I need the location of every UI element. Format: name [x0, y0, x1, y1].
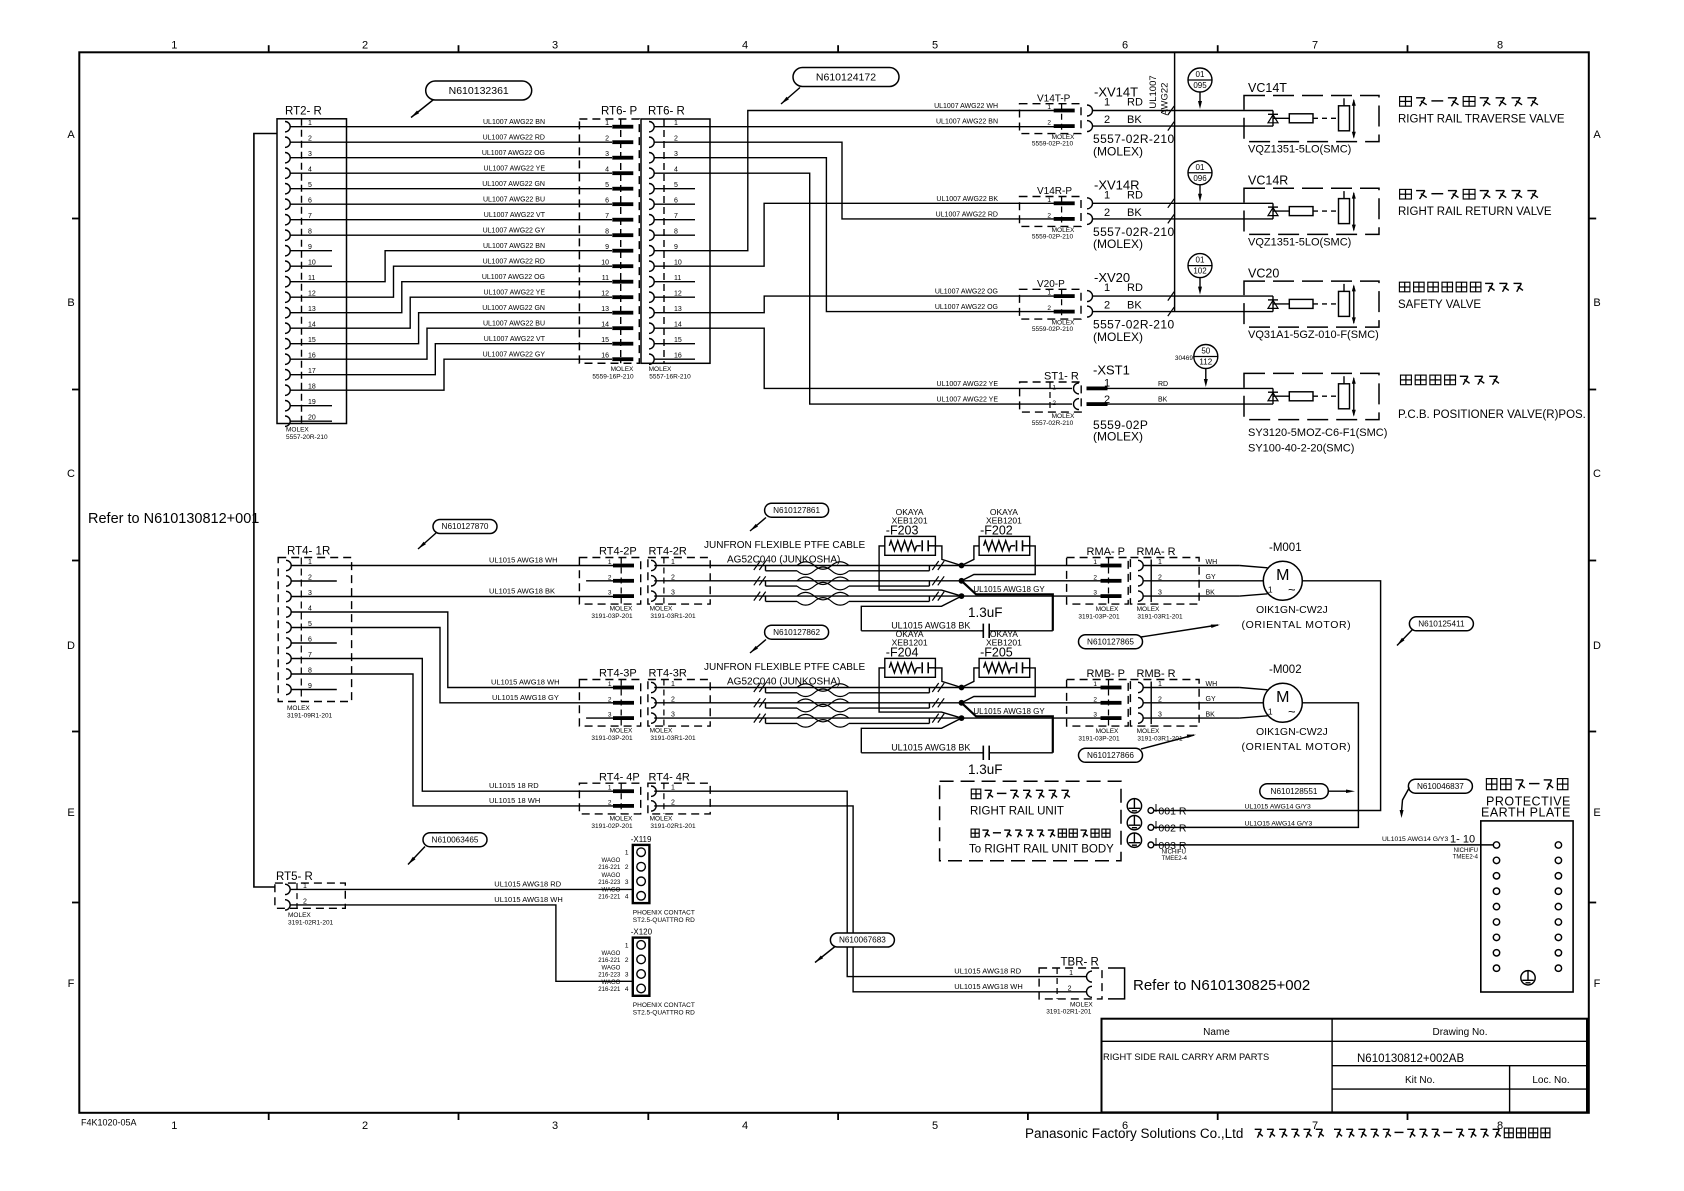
svg-text:UL1007 AWG22 RD: UL1007 AWG22 RD	[936, 211, 998, 218]
svg-text:2: 2	[362, 40, 368, 52]
svg-text:1.3uF: 1.3uF	[968, 605, 1003, 620]
svg-text:TMEE2-4: TMEE2-4	[1453, 855, 1479, 861]
svg-text:UL1007 AWG22 BN: UL1007 AWG22 BN	[483, 119, 545, 126]
svg-text:9: 9	[605, 244, 609, 251]
svg-text:~: ~	[1288, 704, 1296, 719]
svg-text:Panasonic Factory Solutions Co: Panasonic Factory Solutions Co.,Ltd	[1025, 1126, 1243, 1141]
svg-text:N610063465: N610063465	[432, 835, 479, 844]
svg-text:(ORIENTAL MOTOR): (ORIENTAL MOTOR)	[1242, 741, 1352, 753]
svg-text:-XV20: -XV20	[1094, 270, 1130, 285]
svg-text:TMEE2-4: TMEE2-4	[1162, 856, 1188, 862]
svg-text:Refer to N610130812+001: Refer to N610130812+001	[88, 511, 259, 527]
svg-text:UL1007 AWG22 GY: UL1007 AWG22 GY	[483, 352, 546, 359]
svg-text:5557-02R-210: 5557-02R-210	[1032, 420, 1074, 427]
svg-text:2: 2	[608, 696, 612, 703]
svg-text:VQZ1351-5LO(SMC): VQZ1351-5LO(SMC)	[1248, 236, 1351, 248]
svg-text:RT4- 1R: RT4- 1R	[287, 546, 330, 558]
svg-text:SAFETY VALVE: SAFETY VALVE	[1398, 299, 1481, 311]
svg-text:2: 2	[1093, 696, 1097, 703]
svg-text:1: 1	[1047, 104, 1051, 111]
svg-text:16: 16	[601, 353, 609, 360]
svg-text:MOLEX: MOLEX	[650, 815, 673, 822]
svg-text:RT4- 4R: RT4- 4R	[649, 771, 690, 783]
svg-text:2: 2	[625, 957, 629, 964]
svg-text:-F203: -F203	[886, 524, 919, 538]
svg-text:UL1007 AWG22 GN: UL1007 AWG22 GN	[482, 181, 545, 188]
svg-text:UL1007 AWG22 OG: UL1007 AWG22 OG	[935, 289, 998, 296]
svg-text:1: 1	[1104, 97, 1110, 109]
svg-text:UL1015 AWG14 G/Y3: UL1015 AWG14 G/Y3	[1382, 836, 1448, 843]
svg-text:ST2.5-QUATTRO RD: ST2.5-QUATTRO RD	[633, 917, 695, 924]
svg-text:Loc. No.: Loc. No.	[1532, 1075, 1569, 1086]
svg-text:RIGHT RAIL TRAVERSE VALVE: RIGHT RAIL TRAVERSE VALVE	[1398, 113, 1565, 125]
svg-text:2: 2	[1093, 574, 1097, 581]
svg-text:Refer to N610130825+002: Refer to N610130825+002	[1133, 977, 1310, 994]
svg-text:8: 8	[1497, 1120, 1503, 1132]
svg-text:5: 5	[932, 40, 938, 52]
svg-text:UL1O15 AWG14 G/Y3: UL1O15 AWG14 G/Y3	[1245, 820, 1313, 827]
svg-text:RMA- R: RMA- R	[1137, 546, 1176, 558]
svg-text:30469: 30469	[1175, 355, 1193, 362]
svg-text:A: A	[67, 129, 75, 141]
svg-text:RT4- 4P: RT4- 4P	[599, 771, 640, 783]
svg-text:-M002: -M002	[1269, 664, 1302, 676]
svg-text:BK: BK	[1206, 589, 1216, 596]
svg-text:UL1007 AWG22 OG: UL1007 AWG22 OG	[482, 274, 545, 281]
svg-text:4: 4	[742, 40, 748, 52]
svg-text:3191-09R1-201: 3191-09R1-201	[287, 713, 333, 720]
svg-text:3191-03R1-201: 3191-03R1-201	[650, 613, 696, 620]
svg-text:RIGHT RAIL UNIT: RIGHT RAIL UNIT	[970, 806, 1064, 818]
svg-text:SY3120-5MOZ-C6-F1(SMC): SY3120-5MOZ-C6-F1(SMC)	[1248, 427, 1387, 439]
svg-text:UL1015 AWG18 RD: UL1015 AWG18 RD	[494, 879, 561, 888]
svg-text:12: 12	[601, 291, 609, 298]
svg-text:-F204: -F204	[886, 646, 919, 660]
svg-text:3: 3	[625, 879, 629, 886]
svg-text:A: A	[1593, 129, 1601, 141]
svg-text:216-223: 216-223	[598, 973, 621, 979]
svg-text:2: 2	[1104, 207, 1110, 219]
svg-text:-X120: -X120	[631, 928, 653, 937]
svg-text:2: 2	[605, 136, 609, 143]
svg-text:7: 7	[1312, 1120, 1318, 1132]
svg-text:216-221: 216-221	[598, 865, 621, 871]
svg-text:1: 1	[1268, 584, 1273, 594]
svg-text:UL1015 AWG18 WH: UL1015 AWG18 WH	[954, 982, 1023, 991]
svg-text:3191-02R1-201: 3191-02R1-201	[288, 920, 334, 927]
svg-text:2: 2	[1068, 985, 1072, 992]
svg-text:JUNFRON FLEXIBLE PTFE CABLE: JUNFRON FLEXIBLE PTFE CABLE	[704, 662, 865, 673]
svg-text:N610128551: N610128551	[1271, 787, 1318, 796]
svg-text:To RIGHT RAIL UNIT BODY: To RIGHT RAIL UNIT BODY	[969, 844, 1114, 856]
svg-text:WAGO: WAGO	[602, 858, 621, 864]
svg-text:7: 7	[1312, 40, 1318, 52]
svg-text:UL1007 AWG22 YE: UL1007 AWG22 YE	[937, 397, 999, 404]
svg-text:RMB- R: RMB- R	[1137, 668, 1176, 680]
svg-text:RD: RD	[1158, 381, 1168, 388]
svg-text:PHOENIX CONTACT: PHOENIX CONTACT	[633, 909, 695, 916]
svg-text:UL1007 AWG22 WH: UL1007 AWG22 WH	[934, 103, 998, 110]
svg-text:3: 3	[552, 40, 558, 52]
svg-text:RT5- R: RT5- R	[276, 871, 313, 883]
svg-text:14: 14	[601, 322, 609, 329]
svg-text:C: C	[1593, 468, 1601, 480]
svg-text:6: 6	[605, 198, 609, 205]
svg-text:1: 1	[1069, 970, 1073, 977]
svg-text:2: 2	[1104, 300, 1110, 312]
svg-text:MOLEX: MOLEX	[286, 427, 309, 434]
svg-text:UL1015 AWG18 BK: UL1015 AWG18 BK	[891, 742, 970, 752]
svg-text:1: 1	[1093, 559, 1097, 566]
svg-text:01: 01	[1196, 256, 1205, 265]
svg-text:3191-03P-201: 3191-03P-201	[591, 613, 633, 620]
svg-text:UL1015 18 RD: UL1015 18 RD	[489, 781, 539, 790]
svg-text:RD: RD	[1127, 282, 1143, 294]
svg-text:2: 2	[1047, 120, 1051, 127]
svg-text:E: E	[1593, 807, 1600, 819]
svg-text:-X119: -X119	[631, 835, 652, 844]
svg-text:UL1015 AWG18 GY: UL1015 AWG18 GY	[973, 585, 1045, 594]
svg-text:UL1007 AWG22 BN: UL1007 AWG22 BN	[483, 243, 545, 250]
svg-text:UL1007 AWG22 RD: UL1007 AWG22 RD	[483, 135, 545, 142]
svg-text:11: 11	[602, 275, 609, 282]
svg-text:WAGO: WAGO	[602, 980, 621, 986]
svg-text:7: 7	[605, 213, 609, 220]
svg-text:WAGO: WAGO	[602, 873, 621, 879]
svg-text:1: 1	[608, 559, 612, 566]
svg-text:BK: BK	[1127, 114, 1142, 126]
svg-text:3: 3	[625, 972, 629, 979]
svg-text:1: 1	[1047, 290, 1051, 297]
svg-text:5557-16R-210: 5557-16R-210	[649, 374, 691, 381]
svg-text:JUNFRON FLEXIBLE PTFE CABLE: JUNFRON FLEXIBLE PTFE CABLE	[704, 540, 865, 551]
svg-text:BK: BK	[1158, 397, 1168, 404]
svg-text:V20-P: V20-P	[1037, 279, 1065, 290]
svg-text:5559-16P-210: 5559-16P-210	[592, 374, 634, 381]
svg-text:-M001: -M001	[1269, 542, 1302, 554]
svg-text:3: 3	[552, 1120, 558, 1132]
svg-text:1: 1	[608, 785, 612, 792]
svg-text:RT4-2P: RT4-2P	[599, 546, 637, 558]
svg-text:RIGHT RAIL RETURN VALVE: RIGHT RAIL RETURN VALVE	[1398, 206, 1552, 218]
svg-text:2: 2	[625, 864, 629, 871]
svg-text:N610067683: N610067683	[839, 936, 886, 945]
svg-text:D: D	[67, 640, 75, 652]
svg-text:1: 1	[1047, 197, 1051, 204]
svg-text:1: 1	[608, 681, 612, 688]
svg-text:5: 5	[605, 182, 609, 189]
svg-text:1: 1	[1093, 681, 1097, 688]
svg-text:3191-02R1-201: 3191-02R1-201	[1046, 1009, 1092, 1016]
svg-text:1- 10: 1- 10	[1450, 834, 1475, 846]
svg-text:MOLEX: MOLEX	[611, 366, 634, 373]
svg-text:3: 3	[1093, 590, 1097, 597]
svg-text:2: 2	[1104, 114, 1110, 126]
svg-text:3191-02R1-201: 3191-02R1-201	[650, 823, 696, 830]
svg-text:216-221: 216-221	[598, 958, 621, 964]
svg-text:1: 1	[171, 1120, 177, 1132]
svg-text:V14R-P: V14R-P	[1037, 186, 1072, 197]
svg-text:MOLEX: MOLEX	[610, 815, 633, 822]
svg-text:PHOENIX CONTACT: PHOENIX CONTACT	[633, 1002, 695, 1009]
svg-text:NICHIFU: NICHIFU	[1162, 850, 1186, 856]
svg-text:WAGO: WAGO	[602, 966, 621, 972]
svg-text:001 R: 001 R	[1158, 806, 1186, 818]
svg-text:002 R: 002 R	[1158, 822, 1186, 834]
svg-text:UL1007: UL1007	[1148, 75, 1159, 108]
svg-text:4: 4	[625, 986, 629, 993]
svg-text:UL1007 AWG22 GY: UL1007 AWG22 GY	[483, 228, 546, 235]
svg-text:Name: Name	[1203, 1027, 1230, 1038]
svg-text:SY100-40-2-20(SMC): SY100-40-2-20(SMC)	[1248, 443, 1354, 455]
svg-text:E: E	[67, 807, 74, 819]
svg-text:5557-20R-210: 5557-20R-210	[286, 434, 328, 441]
svg-text:1: 1	[1104, 189, 1110, 201]
svg-text:2: 2	[1047, 212, 1051, 219]
svg-text:216-221: 216-221	[598, 987, 621, 993]
svg-text:WH: WH	[1206, 559, 1218, 566]
svg-text:3191-03P-201: 3191-03P-201	[1078, 614, 1120, 621]
svg-text:2: 2	[1047, 305, 1051, 312]
svg-text:V14T-P: V14T-P	[1037, 93, 1071, 104]
svg-text:N610124172: N610124172	[816, 72, 876, 84]
svg-text:AG52C040 (JUNKOSHA): AG52C040 (JUNKOSHA)	[727, 555, 840, 566]
svg-text:GY: GY	[1206, 696, 1216, 703]
svg-text:3: 3	[1093, 712, 1097, 719]
svg-text:RMB- P: RMB- P	[1087, 668, 1126, 680]
svg-text:BK: BK	[1206, 711, 1216, 718]
svg-text:RT6- R: RT6- R	[648, 106, 685, 118]
svg-text:15: 15	[601, 337, 609, 344]
svg-text:1: 1	[605, 120, 609, 127]
svg-text:~: ~	[1288, 582, 1296, 597]
svg-text:216-223: 216-223	[598, 880, 621, 886]
svg-text:1: 1	[1104, 377, 1110, 389]
svg-text:UL1007 AWG22 RD: UL1007 AWG22 RD	[483, 259, 545, 266]
svg-text:1: 1	[171, 40, 177, 52]
svg-text:RT4-2R: RT4-2R	[649, 546, 687, 558]
svg-text:(MOLEX): (MOLEX)	[1093, 330, 1143, 344]
svg-text:3191-03R1-201: 3191-03R1-201	[1137, 614, 1183, 621]
svg-text:RIGHT SIDE RAIL CARRY ARM PART: RIGHT SIDE RAIL CARRY ARM PARTS	[1103, 1052, 1269, 1062]
svg-text:3: 3	[608, 590, 612, 597]
svg-text:MOLEX: MOLEX	[650, 728, 673, 735]
svg-text:F: F	[68, 978, 75, 990]
svg-text:N610127870: N610127870	[442, 522, 489, 531]
svg-text:102: 102	[1193, 267, 1207, 276]
svg-text:3191-02P-201: 3191-02P-201	[591, 823, 633, 830]
svg-text:WAGO: WAGO	[602, 887, 621, 893]
svg-text:8: 8	[1497, 40, 1503, 52]
svg-text:2: 2	[608, 799, 612, 806]
svg-text:N610127861: N610127861	[773, 506, 820, 515]
svg-text:1: 1	[625, 942, 629, 949]
svg-text:RT4-3P: RT4-3P	[599, 668, 637, 680]
svg-text:B: B	[67, 297, 74, 309]
svg-text:C: C	[67, 468, 75, 480]
svg-text:6: 6	[1122, 40, 1128, 52]
svg-text:UL1007 AWG22 YE: UL1007 AWG22 YE	[937, 381, 999, 388]
svg-text:UL1007 AWG22 BN: UL1007 AWG22 BN	[936, 119, 998, 126]
svg-text:EARTH PLATE: EARTH PLATE	[1481, 806, 1571, 820]
svg-text:OIK1GN-CW2J: OIK1GN-CW2J	[1256, 726, 1328, 738]
svg-text:-F202: -F202	[980, 524, 1013, 538]
svg-text:VQ31A1-5GZ-010-F(SMC): VQ31A1-5GZ-010-F(SMC)	[1248, 329, 1379, 341]
svg-text:3: 3	[605, 151, 609, 158]
svg-text:VC14R: VC14R	[1248, 174, 1288, 188]
svg-text:UL1007 AWG22 BU: UL1007 AWG22 BU	[483, 321, 545, 328]
svg-text:MOLEX: MOLEX	[288, 912, 311, 919]
svg-text:1: 1	[625, 850, 629, 857]
svg-text:VQZ1351-5LO(SMC): VQZ1351-5LO(SMC)	[1248, 144, 1351, 156]
svg-text:UL1007 AWG22 BU: UL1007 AWG22 BU	[483, 197, 545, 204]
svg-text:01: 01	[1196, 70, 1205, 79]
svg-text:VC20: VC20	[1248, 266, 1279, 280]
svg-text:1: 1	[1104, 282, 1110, 294]
svg-text:2: 2	[362, 1120, 368, 1132]
svg-text:(MOLEX): (MOLEX)	[1093, 430, 1143, 444]
svg-text:MOLEX: MOLEX	[610, 606, 633, 613]
svg-text:13: 13	[601, 306, 609, 313]
svg-text:MOLEX: MOLEX	[1070, 1002, 1093, 1009]
svg-text:UL1007 AWG22 VT: UL1007 AWG22 VT	[484, 212, 546, 219]
svg-text:RT4-3R: RT4-3R	[649, 668, 687, 680]
svg-text:8: 8	[605, 229, 609, 236]
svg-text:UL1007 AWG22 YE: UL1007 AWG22 YE	[484, 290, 546, 297]
svg-text:5559-02P-210: 5559-02P-210	[1032, 326, 1074, 333]
svg-text:UL1007 AWG22 YE: UL1007 AWG22 YE	[484, 166, 546, 173]
svg-text:RT2- R: RT2- R	[285, 106, 322, 118]
svg-text:N610132361: N610132361	[449, 85, 509, 97]
svg-text:RD: RD	[1127, 97, 1143, 109]
svg-text:MOLEX: MOLEX	[1096, 728, 1119, 735]
svg-text:112: 112	[1199, 358, 1212, 367]
svg-text:F4K1020-05A: F4K1020-05A	[81, 1118, 137, 1128]
svg-text:GY: GY	[1206, 574, 1216, 581]
svg-text:MOLEX: MOLEX	[649, 366, 672, 373]
svg-text:(MOLEX): (MOLEX)	[1093, 237, 1143, 251]
svg-text:MOLEX: MOLEX	[1096, 606, 1119, 613]
svg-text:1.3uF: 1.3uF	[968, 762, 1003, 777]
svg-text:D: D	[1593, 640, 1601, 652]
svg-text:1: 1	[1268, 706, 1273, 716]
svg-text:5559-02P-210: 5559-02P-210	[1032, 141, 1074, 148]
svg-text:MOLEX: MOLEX	[1052, 413, 1075, 420]
svg-text:095: 095	[1193, 81, 1207, 90]
svg-text:(ORIENTAL MOTOR): (ORIENTAL MOTOR)	[1242, 619, 1352, 631]
svg-text:F: F	[1594, 978, 1601, 990]
svg-text:RMA- P: RMA- P	[1087, 546, 1126, 558]
svg-text:MOLEX: MOLEX	[610, 728, 633, 735]
svg-text:UL1007 AWG22 VT: UL1007 AWG22 VT	[484, 336, 546, 343]
svg-text:B: B	[1593, 297, 1600, 309]
svg-text:UL1015 AWG18 RD: UL1015 AWG18 RD	[954, 967, 1021, 976]
svg-text:OIK1GN-CW2J: OIK1GN-CW2J	[1256, 604, 1328, 616]
svg-text:3191-03P-201: 3191-03P-201	[1078, 736, 1120, 743]
svg-text:N610127866: N610127866	[1087, 751, 1134, 760]
svg-text:5559-02P-210: 5559-02P-210	[1032, 233, 1074, 240]
svg-text:-F205: -F205	[980, 646, 1013, 660]
svg-text:WAGO: WAGO	[602, 951, 621, 957]
svg-text:WH: WH	[1206, 681, 1218, 688]
svg-text:4: 4	[605, 167, 609, 174]
svg-text:P.C.B. POSITIONER VALVE(R)POS.: P.C.B. POSITIONER VALVE(R)POS.	[1398, 409, 1586, 421]
svg-text:UL1015 18 WH: UL1015 18 WH	[489, 796, 540, 805]
svg-text:BK: BK	[1127, 207, 1142, 219]
svg-text:4: 4	[742, 1120, 748, 1132]
svg-text:096: 096	[1193, 174, 1207, 183]
svg-text:TBR- R: TBR- R	[1061, 957, 1099, 969]
svg-text:N610127862: N610127862	[773, 628, 820, 637]
svg-text:50: 50	[1201, 347, 1210, 356]
svg-text:5: 5	[932, 1120, 938, 1132]
svg-text:MOLEX: MOLEX	[287, 705, 310, 712]
svg-text:N610130812+002AB: N610130812+002AB	[1357, 1053, 1464, 1065]
svg-text:1: 1	[1052, 384, 1056, 391]
svg-text:216-221: 216-221	[598, 894, 621, 900]
svg-text:AWG22: AWG22	[1160, 83, 1171, 116]
svg-text:ST1- R: ST1- R	[1044, 371, 1079, 383]
svg-text:UL1015 AWG18 WH: UL1015 AWG18 WH	[489, 556, 558, 565]
svg-text:UL1007 AWG22 BK: UL1007 AWG22 BK	[936, 196, 998, 203]
svg-text:VC14T: VC14T	[1248, 81, 1287, 95]
svg-text:N610127865: N610127865	[1087, 637, 1134, 646]
svg-text:4: 4	[625, 893, 629, 900]
svg-text:3191-03R1-201: 3191-03R1-201	[650, 735, 696, 742]
svg-text:UL1015 AWG18 BK: UL1015 AWG18 BK	[489, 587, 555, 596]
svg-text:NICHIFU: NICHIFU	[1454, 848, 1478, 854]
svg-text:AG52C040 (JUNKOSHA): AG52C040 (JUNKOSHA)	[727, 677, 840, 688]
svg-text:N610125411: N610125411	[1418, 620, 1465, 629]
svg-text:UL1015 AWG14 G/Y3: UL1015 AWG14 G/Y3	[1245, 804, 1311, 811]
svg-text:ST2.5-QUATTRO RD: ST2.5-QUATTRO RD	[633, 1010, 695, 1017]
svg-text:Kit No.: Kit No.	[1405, 1075, 1435, 1086]
svg-text:RT6- P: RT6- P	[601, 106, 638, 118]
svg-text:10: 10	[601, 260, 609, 267]
svg-text:MOLEX: MOLEX	[1137, 728, 1160, 735]
svg-text:UL1007 AWG22 OG: UL1007 AWG22 OG	[935, 304, 998, 311]
svg-text:UL1015 AWG18 WH: UL1015 AWG18 WH	[491, 678, 560, 687]
svg-text:MOLEX: MOLEX	[650, 606, 673, 613]
svg-text:UL1015 AWG18 WH: UL1015 AWG18 WH	[494, 895, 563, 904]
svg-text:(MOLEX): (MOLEX)	[1093, 144, 1143, 158]
svg-text:01: 01	[1196, 163, 1205, 172]
svg-text:UL1015 AWG18 GY: UL1015 AWG18 GY	[973, 707, 1045, 716]
svg-text:2: 2	[1052, 400, 1056, 407]
svg-text:N610046837: N610046837	[1417, 782, 1464, 791]
svg-text:UL1007 AWG22 OG: UL1007 AWG22 OG	[482, 150, 545, 157]
svg-text:-XST1: -XST1	[1093, 362, 1130, 377]
svg-text:BK: BK	[1127, 300, 1142, 312]
svg-text:RD: RD	[1127, 189, 1143, 201]
svg-text:3191-03P-201: 3191-03P-201	[591, 735, 633, 742]
svg-text:UL1015 AWG18 GY: UL1015 AWG18 GY	[492, 693, 559, 702]
svg-text:Drawing No.: Drawing No.	[1432, 1027, 1487, 1038]
svg-text:UL1007 AWG22 GN: UL1007 AWG22 GN	[482, 305, 545, 312]
svg-text:MOLEX: MOLEX	[1137, 606, 1160, 613]
